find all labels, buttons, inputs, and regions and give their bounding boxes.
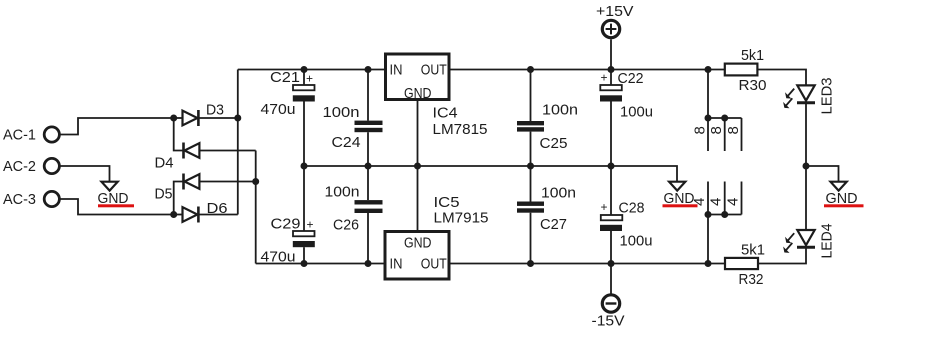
svg-text:C26: C26 [333,217,359,234]
svg-text:IN: IN [390,62,403,79]
svg-text:R30: R30 [739,77,767,94]
svg-text:C21: C21 [270,69,300,86]
terminal -15V [592,295,625,330]
svg-text:LED4: LED4 [819,224,836,259]
svg-text:5k1: 5k1 [741,242,765,259]
node junction dots [170,66,809,267]
diode D6 [183,200,228,223]
wire AC-1 to D3 anode [60,118,174,135]
svg-text:C29: C29 [271,216,301,233]
capacitor C28 [600,166,653,264]
svg-text:AC-2: AC-2 [3,158,36,175]
wire D5 cathode riser to AC-3 node [174,182,184,215]
svg-text:100n: 100n [325,183,360,200]
wire bottom rail left [256,263,386,265]
op-amp U2 regulator IC5 [385,194,489,279]
wire gnd node to right ground [806,166,839,181]
svg-text:OUT: OUT [421,256,447,273]
svg-text:+: + [306,72,313,86]
svg-text:100u: 100u [620,233,653,250]
svg-text:100n: 100n [323,104,360,121]
wire pin-8 header drop [707,70,709,119]
svg-text:IC4: IC4 [433,105,458,122]
terminal +15V [596,3,634,38]
wire AC-3 to D6 anode [60,199,174,215]
wire positive riser [237,70,239,215]
ground (right) [824,182,864,208]
wire AC-2 to ground [60,166,110,181]
capacitor C27 [517,166,576,264]
diode D5 [155,174,200,203]
diode D3 [183,102,225,127]
svg-text:LED3: LED3 [819,78,836,115]
wire IC4 GND pin [417,100,419,167]
svg-text:4: 4 [708,198,725,206]
wire LED3 to gnd node [805,104,807,167]
svg-text:470u: 470u [261,101,296,118]
wire bottom rail right [449,263,725,265]
svg-text:IC5: IC5 [434,194,460,211]
terminal AC-3 [3,191,59,208]
svg-text:R32: R32 [739,271,764,288]
capacitor C26 [325,166,383,264]
svg-text:C27: C27 [540,216,567,233]
svg-text:100n: 100n [541,184,576,201]
svg-text:LM7815: LM7815 [433,121,488,138]
svg-text:GND: GND [404,85,432,102]
svg-text:C25: C25 [540,135,568,152]
svg-text:C28: C28 [619,200,645,217]
svg-text:8: 8 [692,126,709,134]
svg-text:+15V: +15V [596,3,634,20]
svg-text:OUT: OUT [421,62,447,79]
capacitor C25 [517,70,578,167]
ground (mid) [663,182,698,208]
node pin-4 header [691,182,742,215]
svg-text:AC-3: AC-3 [3,191,36,208]
capacitor C21 [261,69,315,166]
diode D4 [155,143,200,172]
wire top rail right [450,69,725,71]
svg-text:4: 4 [691,198,708,206]
wire D6 anode [174,214,183,216]
wire +15V drop [610,39,612,69]
wire negative riser [255,151,257,264]
svg-text:8: 8 [725,126,742,134]
svg-text:C22: C22 [618,70,644,87]
svg-text:100u: 100u [620,104,653,121]
svg-text:+: + [601,71,608,85]
op-amp U1 regulator IC4 [386,54,488,138]
ground (AC-2) [98,182,135,208]
svg-text:+: + [601,200,608,214]
terminal AC-1 [3,127,59,144]
LED LED3 [783,78,835,115]
wire LED4 to R32 [758,249,806,264]
svg-text:-15V: -15V [592,313,625,330]
wire D6 cathode to positive riser [198,214,237,216]
svg-text:8: 8 [708,126,725,134]
svg-text:GND: GND [404,235,432,252]
wire R30 to LED3 [757,70,806,86]
wire D5 anode to negative riser [199,181,255,183]
capacitor C22 [600,70,653,167]
resistor R32 [725,242,765,289]
capacitor C29 [261,166,315,266]
wire gnd node to LED4 [805,166,807,230]
svg-text:LM7915: LM7915 [434,210,489,227]
wire top rail left [238,69,385,71]
wire D4 cathode riser to AC-1 node [174,118,184,151]
svg-text:C24: C24 [332,134,361,151]
capacitor C24 [323,70,383,167]
wire D3 anode [174,117,183,119]
wire -15V drop [610,264,612,294]
svg-text:+: + [307,218,314,232]
svg-text:D3: D3 [206,102,224,119]
node pin-8 header [692,118,743,151]
wire pin-4 header to bottom rail [707,215,709,264]
wire GND rail [304,166,677,181]
resistor R30 [725,47,767,94]
svg-text:IN: IN [390,256,403,273]
wire D3 cathode to positive riser [198,117,237,119]
wire IC5 GND pin [417,166,419,232]
svg-text:AC-1: AC-1 [3,127,36,144]
svg-text:D4: D4 [155,155,174,172]
svg-text:4: 4 [724,198,741,206]
svg-text:5k1: 5k1 [741,47,764,64]
svg-text:100n: 100n [542,102,578,119]
wire D4 anode to negative riser [199,150,255,152]
LED LED4 [783,224,835,259]
terminal AC-2 [3,158,59,175]
svg-text:D5: D5 [155,185,173,202]
